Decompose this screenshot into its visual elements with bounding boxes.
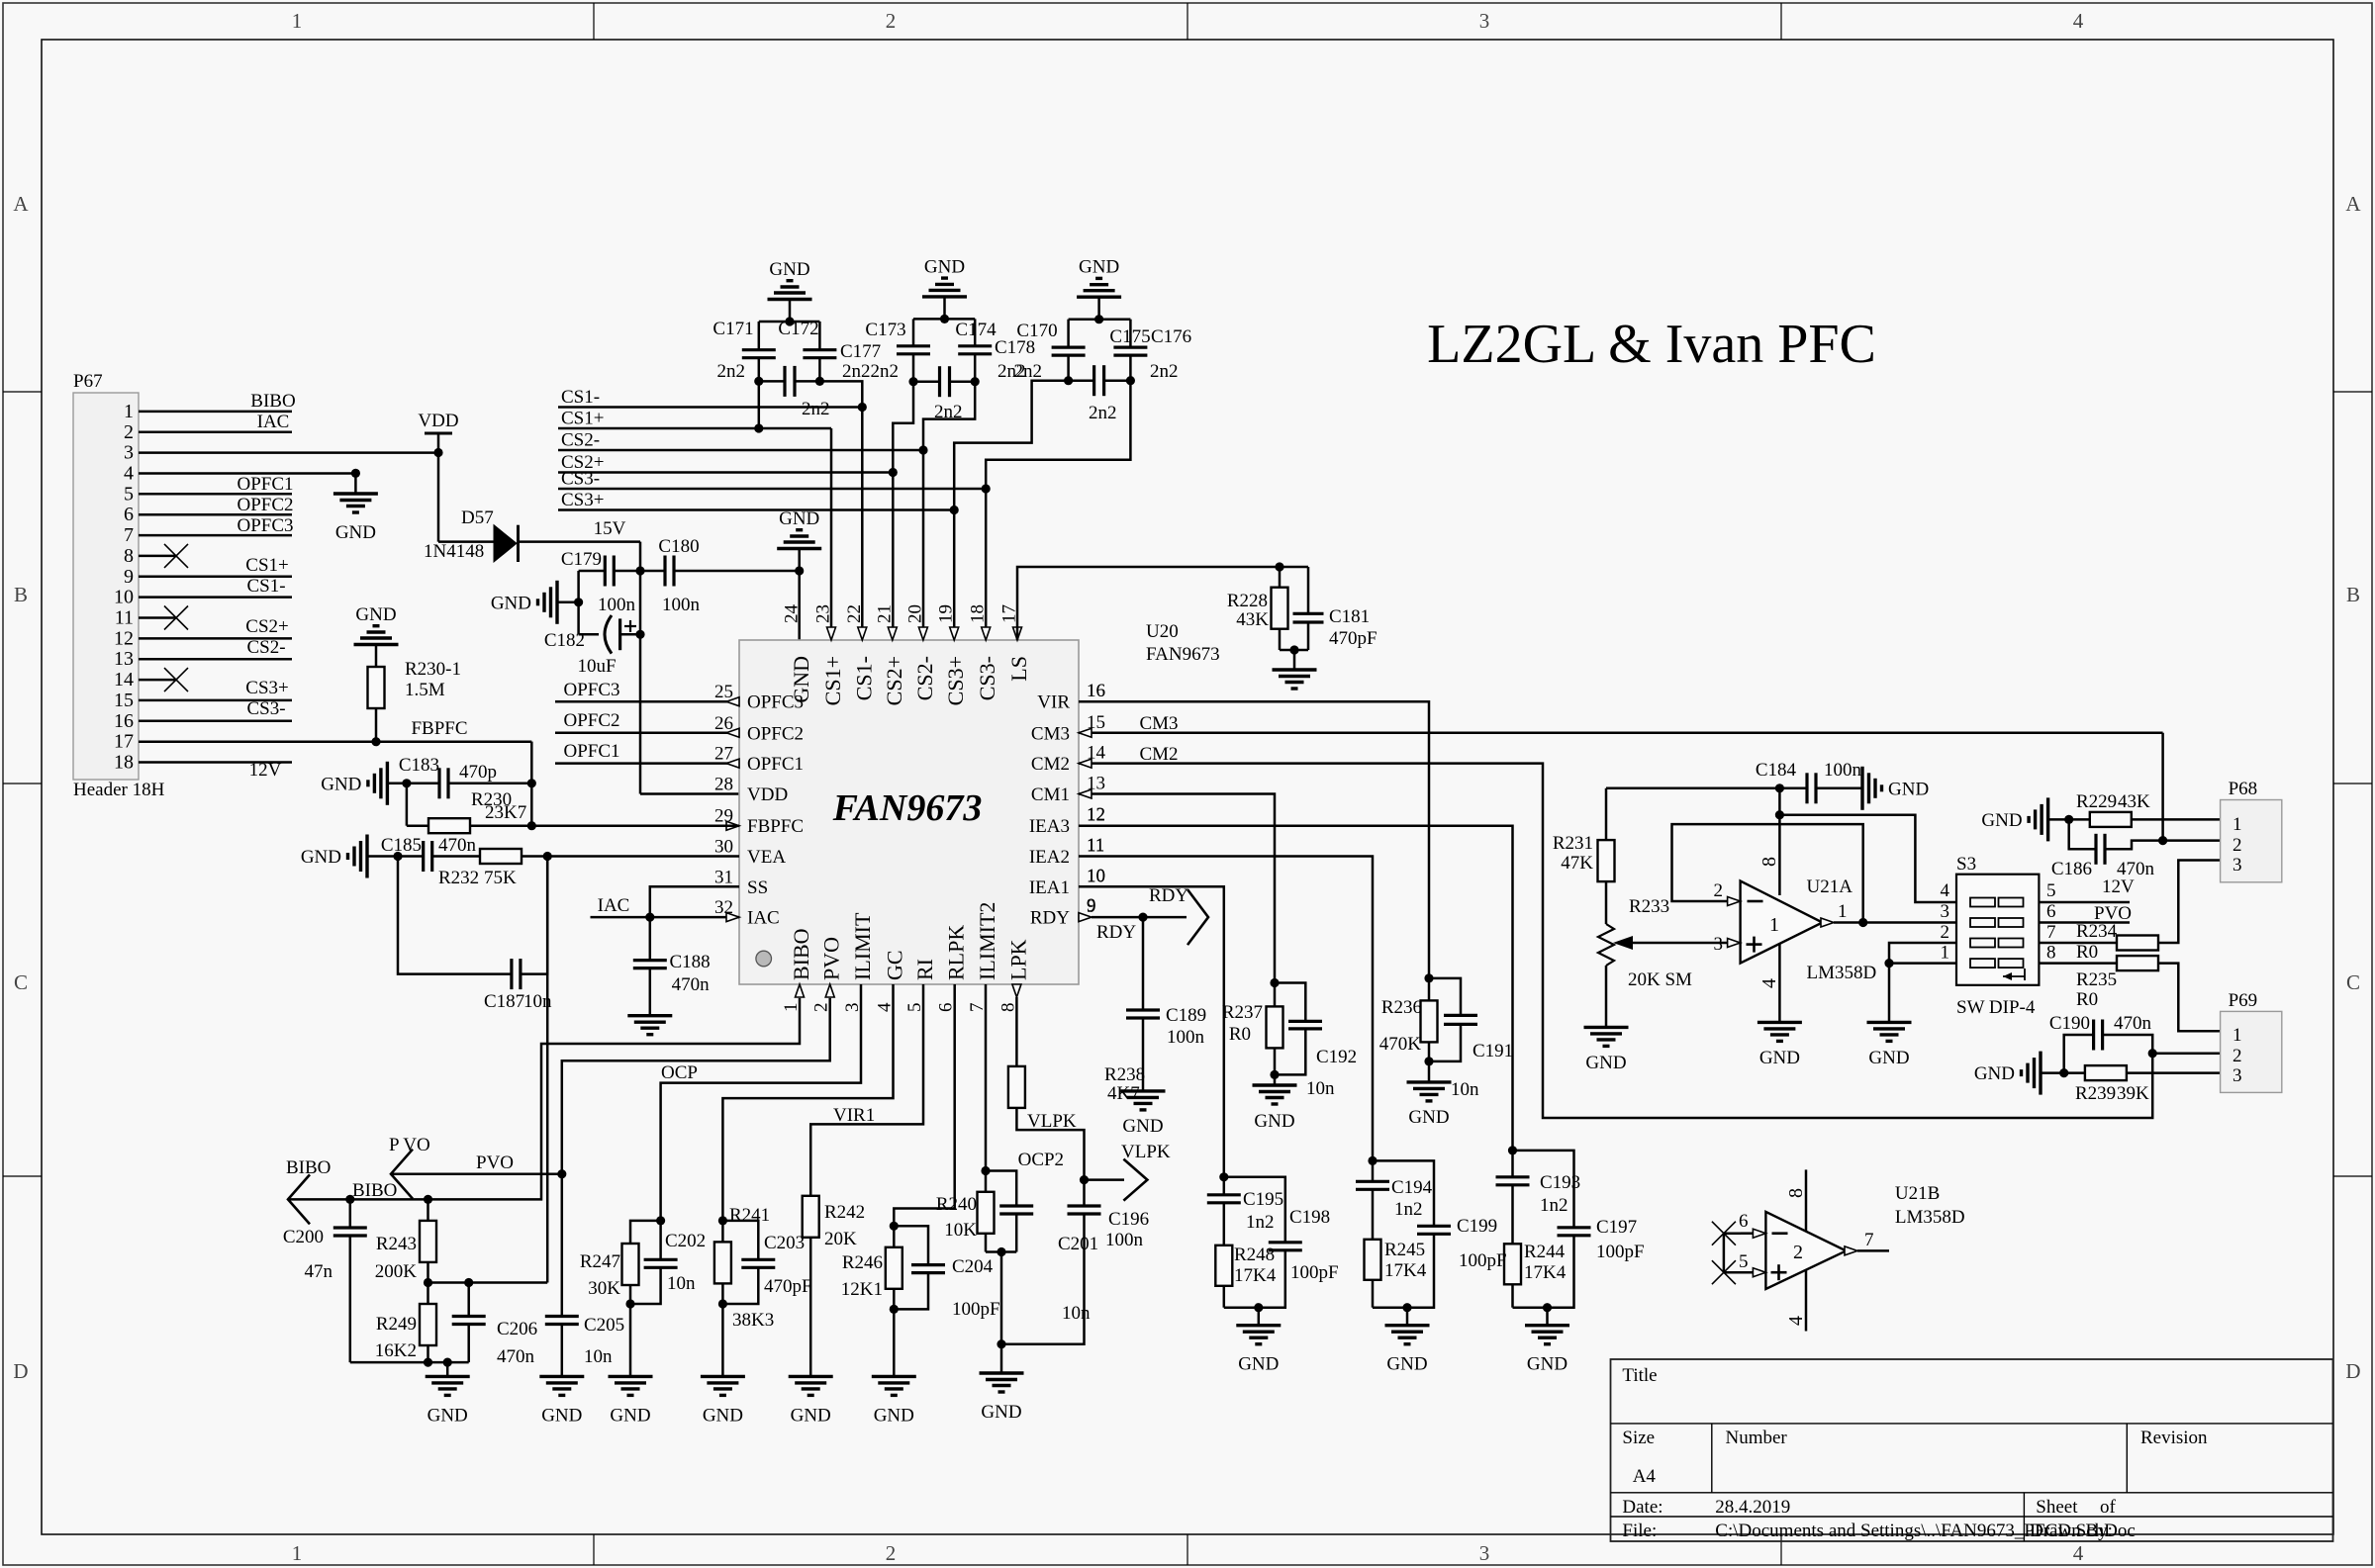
svg-text:100n: 100n	[662, 595, 701, 615]
svg-text:C198: C198	[1289, 1207, 1330, 1228]
connector P68	[2221, 800, 2282, 882]
svg-text:GND: GND	[1868, 1048, 1909, 1068]
capacitor C181 470pF	[1307, 567, 1310, 613]
wire CS2+ stub	[558, 471, 893, 474]
svg-text:12V: 12V	[2102, 876, 2135, 897]
svg-text:100pF: 100pF	[1596, 1242, 1645, 1262]
ground under divider	[446, 1362, 449, 1376]
pin 2 PVO arrow	[825, 984, 834, 997]
svg-text:CS3+: CS3+	[943, 656, 968, 705]
capacitor C201 10n	[999, 1204, 1033, 1207]
wire P67 pin 14 no-connect	[139, 679, 176, 682]
svg-text:R240: R240	[936, 1194, 977, 1215]
svg-text:2n2: 2n2	[717, 361, 746, 382]
junction PVO arrow	[557, 1169, 566, 1178]
svg-text:CS2-: CS2-	[912, 656, 937, 700]
svg-text:C186: C186	[2051, 859, 2092, 879]
resistor R231 47K	[1605, 788, 1608, 840]
svg-text:CS3+: CS3+	[245, 678, 288, 698]
svg-text:RLPK: RLPK	[944, 925, 969, 980]
svg-text:GND: GND	[1254, 1111, 1294, 1132]
junction group bottom	[1402, 1303, 1411, 1312]
svg-text:R249: R249	[376, 1314, 417, 1335]
svg-text:4: 4	[124, 463, 134, 485]
svg-text:43K: 43K	[2118, 791, 2150, 812]
svg-text:Title: Title	[1622, 1365, 1657, 1386]
svg-text:13: 13	[114, 648, 134, 670]
svg-text:31: 31	[714, 867, 733, 887]
svg-text:470n: 470n	[2117, 859, 2155, 879]
wire GC net pin 4	[722, 984, 893, 1221]
svg-text:C174: C174	[955, 320, 997, 340]
ground above cap group	[789, 300, 792, 323]
svg-text:IAC: IAC	[598, 895, 630, 916]
ground under R241	[721, 1304, 724, 1376]
svg-text:4: 4	[1941, 880, 1950, 901]
junction R246/C204	[890, 1222, 899, 1231]
svg-text:R0: R0	[1229, 1024, 1251, 1045]
svg-text:2: 2	[2232, 835, 2242, 856]
svg-text:C201: C201	[1058, 1234, 1098, 1254]
svg-text:CM3: CM3	[1139, 713, 1178, 734]
capacitor C206 470n	[467, 1283, 470, 1317]
wire CS3+ stub	[558, 508, 954, 511]
svg-text:R238: R238	[1104, 1064, 1145, 1085]
svg-text:12K1: 12K1	[841, 1279, 883, 1300]
ground under U21A	[1757, 1021, 1802, 1024]
svg-text:5: 5	[124, 483, 134, 505]
svg-text:C: C	[14, 970, 28, 994]
U21A output pin 1	[1821, 918, 1834, 927]
wire OCP2 to C201	[986, 1171, 1016, 1207]
svg-text:LPK: LPK	[1005, 939, 1030, 980]
svg-text:15V: 15V	[594, 518, 626, 539]
junction R241/C203	[718, 1216, 727, 1225]
svg-text:GND: GND	[1527, 1354, 1567, 1375]
svg-text:10: 10	[1087, 866, 1105, 886]
junction R237 bottom	[1270, 1070, 1279, 1079]
resistor R239 39K	[2085, 1065, 2127, 1080]
svg-text:18: 18	[114, 752, 134, 774]
svg-text:2n2: 2n2	[1014, 361, 1043, 382]
svg-text:1: 1	[1941, 943, 1950, 964]
svg-text:1n2: 1n2	[1540, 1195, 1568, 1216]
ground above IC pin 24	[798, 549, 801, 572]
svg-text:16K2: 16K2	[375, 1340, 417, 1361]
svg-text:GND: GND	[1079, 257, 1119, 278]
capacitor C183 470p	[437, 768, 440, 798]
bottom rail R249/C200/C206	[350, 1361, 469, 1364]
connector P67 Header 18H	[73, 393, 139, 780]
capacitor C193 1n2	[1511, 1151, 1514, 1177]
svg-text:P VO: P VO	[389, 1135, 430, 1155]
U21A feedback loop	[1672, 824, 1863, 922]
resistor R235 R0	[2039, 962, 2117, 965]
svg-text:GND: GND	[321, 774, 361, 794]
svg-text:C177: C177	[840, 341, 881, 362]
wire IEA1 pin10 to C195 group	[1079, 886, 1224, 1177]
capacitor C198 100pF	[1224, 1177, 1285, 1243]
svg-text:100n: 100n	[1824, 760, 1862, 781]
svg-text:2: 2	[886, 9, 897, 33]
svg-text:CS1-: CS1-	[561, 387, 600, 408]
svg-text:2: 2	[1941, 922, 1950, 943]
ground above cap group	[1097, 297, 1100, 320]
wire VLPK net	[1016, 1108, 1084, 1180]
wire VIR pin16 to R236	[1079, 701, 1429, 978]
junction CM2/P69 pin2	[2148, 1049, 2157, 1058]
svg-text:10n: 10n	[667, 1273, 696, 1294]
svg-text:Size: Size	[1622, 1428, 1655, 1448]
svg-text:C181: C181	[1329, 606, 1370, 627]
svg-text:C179: C179	[561, 549, 602, 570]
svg-text:R235: R235	[2076, 969, 2117, 990]
svg-text:47K: 47K	[1561, 853, 1593, 874]
capacitor C184 100n	[1779, 787, 1807, 790]
svg-text:A4: A4	[1633, 1466, 1657, 1487]
svg-text:Sheet: Sheet	[2036, 1497, 2078, 1518]
wire C177 rail to CS1- / pin 22	[819, 381, 862, 407]
wire S3 pin 6 PVO stub	[2039, 921, 2130, 924]
svg-text:CS3+: CS3+	[561, 490, 604, 510]
svg-text:Date:: Date:	[1622, 1497, 1662, 1518]
wire PVO net	[562, 998, 830, 1317]
capacitor C179 100n	[604, 556, 607, 587]
svg-text:OPFC1: OPFC1	[747, 754, 804, 775]
wire OCP net pin 3	[661, 984, 861, 1221]
svg-text:R232: R232	[438, 868, 479, 888]
junction R243 top	[424, 1195, 432, 1204]
svg-text:38K3: 38K3	[732, 1310, 774, 1331]
svg-text:17K4: 17K4	[1524, 1262, 1567, 1283]
svg-text:6: 6	[1739, 1211, 1749, 1232]
ground stem under R240	[1000, 1252, 1003, 1374]
wire divider mid to VEA node	[428, 1281, 548, 1284]
junction R230-1 bottom	[371, 737, 380, 746]
svg-text:GND: GND	[1974, 1063, 2015, 1084]
svg-text:R0: R0	[2076, 942, 2098, 963]
svg-text:D: D	[2345, 1359, 2360, 1383]
ground under group	[1406, 1308, 1409, 1326]
svg-text:VDD: VDD	[747, 784, 788, 805]
svg-text:CS1-: CS1-	[246, 576, 285, 597]
ground under group	[1546, 1308, 1549, 1326]
svg-text:23K7: 23K7	[485, 802, 526, 823]
connector P69	[2221, 1011, 2282, 1092]
capacitor C187 10n	[398, 857, 512, 974]
svg-text:GND: GND	[791, 1405, 831, 1426]
svg-text:IEA3: IEA3	[1029, 816, 1070, 837]
capacitor C188 470n	[633, 959, 667, 962]
svg-text:C189: C189	[1166, 1005, 1206, 1026]
wire OPFC2 stub to pin 26	[555, 732, 739, 735]
svg-text:GND: GND	[1585, 1053, 1626, 1073]
svg-text:GND: GND	[335, 522, 376, 543]
svg-text:B: B	[2346, 583, 2360, 606]
svg-text:7: 7	[1864, 1230, 1874, 1250]
wire P67 pin 3 to VDD	[139, 451, 438, 454]
harness arrow P VO	[391, 1150, 413, 1199]
svg-text:IAC: IAC	[257, 412, 290, 432]
junction R237 top	[1270, 978, 1279, 987]
svg-text:RDY: RDY	[1030, 908, 1070, 929]
svg-text:C196: C196	[1108, 1209, 1149, 1230]
svg-text:2: 2	[1714, 880, 1724, 901]
svg-text:CM2: CM2	[1031, 754, 1070, 775]
svg-text:LM358D: LM358D	[1895, 1207, 1965, 1228]
wire P67 pin 13	[139, 658, 292, 661]
pin 29 FBPFC input arrow	[726, 821, 739, 830]
wire P67 pin 7	[139, 534, 292, 537]
svg-text:7: 7	[2046, 922, 2056, 943]
svg-text:20K SM: 20K SM	[1628, 969, 1692, 990]
svg-text:BIBO: BIBO	[789, 928, 813, 980]
svg-text:C171: C171	[712, 319, 753, 339]
resistor R238 4K7	[1015, 997, 1018, 1066]
svg-text:8: 8	[1785, 1188, 1807, 1198]
svg-text:VIR: VIR	[1037, 692, 1070, 713]
resistor R237 R0	[1274, 983, 1277, 1007]
capacitor C196 100n	[1083, 1180, 1086, 1206]
resistor R232 75K	[480, 849, 522, 864]
svg-text:GND: GND	[1408, 1107, 1449, 1128]
svg-text:VIR1: VIR1	[833, 1105, 875, 1126]
capacitor C202 10n	[659, 1221, 662, 1259]
wire BIBO net	[288, 998, 800, 1200]
svg-text:CS1+: CS1+	[820, 656, 845, 705]
svg-text:CS2-: CS2-	[246, 637, 285, 658]
wire C170 lead to CS3+ / pin 19	[954, 381, 1068, 510]
svg-text:R0: R0	[2076, 989, 2098, 1010]
wire VIR1 net pin 5	[810, 984, 923, 1196]
svg-text:C204: C204	[952, 1256, 994, 1277]
svg-text:12: 12	[1087, 804, 1105, 825]
resistor R234 R0	[2039, 942, 2117, 945]
svg-text:10uF: 10uF	[577, 656, 616, 677]
svg-text:8: 8	[1758, 857, 1780, 867]
svg-text:17K4: 17K4	[1384, 1260, 1427, 1281]
wire R231 top to C184 node	[1606, 787, 1779, 790]
svg-text:11: 11	[115, 607, 134, 629]
svg-text:of: of	[2100, 1497, 2117, 1518]
wire CS3- stub	[558, 488, 986, 491]
svg-text:2n2: 2n2	[802, 399, 830, 419]
wire P67 pin 4 to GND	[139, 472, 355, 475]
svg-text:Number: Number	[1726, 1428, 1788, 1448]
capacitor C194 1n2	[1372, 1160, 1375, 1181]
svg-text:GND: GND	[769, 259, 809, 280]
capacitor C189 100n	[1126, 1008, 1160, 1011]
wire P67 pin 12	[139, 637, 292, 640]
svg-text:GND: GND	[703, 1405, 743, 1426]
junction C184 node	[1775, 784, 1784, 792]
harness arrow BIBO	[288, 1174, 310, 1224]
wire RLPK net pin 6	[894, 984, 954, 1226]
svg-text:11: 11	[1087, 835, 1104, 856]
resistor R243 200K	[427, 1199, 429, 1221]
svg-text:28: 28	[714, 775, 733, 795]
svg-text:C175: C175	[1109, 326, 1150, 347]
svg-text:100pF: 100pF	[952, 1299, 1000, 1320]
resistor R247 30K	[630, 1221, 661, 1244]
svg-text:CS2-: CS2-	[561, 430, 600, 451]
ground under C189	[1142, 1018, 1145, 1091]
wire C173 lead to CS2+ / pin 21	[893, 382, 913, 473]
svg-text:470K: 470K	[1379, 1034, 1422, 1055]
junction C200	[345, 1195, 354, 1204]
wire SS pin 31	[650, 886, 739, 917]
svg-text:R233: R233	[1629, 896, 1669, 917]
svg-text:R231: R231	[1553, 833, 1593, 854]
capacitor C182 10uF electrolytic	[579, 633, 599, 636]
wire S3 pin 5 12V stub	[2039, 901, 2130, 904]
svg-text:12V: 12V	[249, 760, 282, 781]
resistor R246 12K1	[893, 1226, 896, 1247]
resistor R241 38K3	[721, 1221, 724, 1243]
svg-text:470p: 470p	[459, 762, 497, 783]
wire LS pin 17 to R228	[1017, 567, 1280, 640]
svg-text:C191: C191	[1472, 1041, 1513, 1061]
svg-text:GND: GND	[924, 256, 965, 277]
svg-text:1: 1	[2232, 1025, 2242, 1046]
svg-text:1: 1	[124, 401, 134, 422]
svg-text:10n: 10n	[1062, 1303, 1091, 1324]
junction group bottom	[1254, 1303, 1263, 1312]
svg-text:9: 9	[124, 566, 134, 588]
svg-text:VLPK: VLPK	[1121, 1142, 1171, 1162]
svg-text:100n: 100n	[1105, 1230, 1144, 1250]
svg-text:R230-1: R230-1	[405, 659, 461, 680]
svg-text:R247: R247	[580, 1251, 620, 1272]
wire OPFC1 stub to pin 27	[555, 762, 739, 765]
wire P67 pin 16	[139, 720, 292, 723]
svg-text:VLPK: VLPK	[1027, 1111, 1077, 1132]
svg-text:28.4.2019: 28.4.2019	[1715, 1497, 1790, 1518]
svg-text:5: 5	[1739, 1251, 1749, 1272]
svg-text:ILIMIT2: ILIMIT2	[975, 902, 999, 980]
wire CS2- stub	[558, 449, 923, 452]
svg-text:IEA2: IEA2	[1029, 847, 1070, 868]
pin 8 LPK output arrow	[1012, 984, 1021, 997]
svg-text:CS2+: CS2+	[245, 616, 288, 637]
svg-text:C199: C199	[1457, 1216, 1497, 1237]
svg-text:C172: C172	[778, 319, 818, 339]
svg-text:C176: C176	[1151, 326, 1191, 347]
wire ILIMIT2 pin 7 to R240	[985, 984, 988, 1192]
svg-text:470n: 470n	[497, 1346, 535, 1367]
svg-text:10: 10	[114, 587, 134, 608]
svg-text:OCP: OCP	[661, 1062, 698, 1083]
potentiometer R233 20K SM	[1605, 881, 1608, 924]
diode D57 1N4148	[438, 540, 494, 543]
svg-text:GND: GND	[1238, 1354, 1279, 1375]
ground under R236	[1428, 1061, 1431, 1082]
svg-text:GND: GND	[491, 593, 531, 613]
svg-text:470n: 470n	[438, 835, 477, 856]
svg-text:SW DIP-4: SW DIP-4	[1956, 997, 2036, 1018]
svg-text:BIBO: BIBO	[352, 1180, 397, 1201]
capacitor C205 10n	[545, 1315, 579, 1318]
op-amp U21A LM358D	[1741, 881, 1823, 964]
U21A input pin 2	[1728, 897, 1741, 906]
svg-text:1: 1	[1838, 901, 1848, 922]
svg-text:8: 8	[124, 545, 134, 567]
svg-text:D57: D57	[461, 507, 494, 528]
capacitor C197 100pF	[1513, 1151, 1574, 1228]
svg-text:GND: GND	[981, 1402, 1021, 1423]
svg-text:3: 3	[1479, 1541, 1490, 1565]
U21A power pin 8	[1778, 815, 1781, 895]
wire CM2 pin14 to P69	[1079, 764, 2152, 1118]
wire IEA2 pin11 to C194 group	[1079, 857, 1373, 1161]
svg-text:GC: GC	[883, 950, 907, 980]
resistor R230 23K7	[406, 784, 409, 826]
svg-text:P69: P69	[2229, 990, 2258, 1011]
junction C182/GND	[574, 598, 583, 606]
svg-text:24: 24	[782, 604, 803, 624]
svg-text:39K: 39K	[2117, 1083, 2149, 1104]
svg-text:RDY: RDY	[1096, 922, 1136, 943]
wire IAC stub pin 32	[591, 916, 740, 919]
svg-text:CM3: CM3	[1031, 723, 1070, 744]
resistor R249 16K2	[427, 1283, 429, 1305]
resistor R242 20K	[803, 1196, 819, 1238]
junction LS/R228	[1275, 562, 1283, 571]
wire P67 pin 11 no-connect	[139, 616, 176, 619]
U21B power pin 4	[1805, 1270, 1808, 1332]
svg-text:GND: GND	[1759, 1048, 1800, 1068]
pin 9 RDY output arrow	[1079, 913, 1092, 922]
svg-text:C185: C185	[381, 835, 422, 856]
junction R247/C202	[656, 1216, 665, 1225]
resistor R248 17K4	[1223, 1203, 1226, 1245]
svg-text:A: A	[13, 192, 29, 216]
junction VLPK	[1080, 1175, 1089, 1184]
svg-text:1: 1	[292, 9, 303, 33]
U21B output pin 7	[1845, 1246, 1857, 1255]
junction node VDD	[433, 448, 442, 457]
svg-text:OPFC1: OPFC1	[237, 474, 293, 495]
svg-text:15: 15	[114, 690, 134, 711]
svg-text:12: 12	[114, 627, 134, 649]
resistor R230-1 1.5M	[368, 667, 385, 708]
harness arrow RDY	[1187, 889, 1208, 945]
ground above R230-1	[375, 645, 378, 668]
ground left of C179	[555, 581, 558, 624]
svg-text:B: B	[14, 583, 28, 606]
capacitor C190 470n	[2064, 1035, 2094, 1073]
svg-text:3: 3	[124, 442, 134, 464]
svg-text:2n2: 2n2	[842, 361, 871, 382]
svg-text:FBPFC: FBPFC	[747, 816, 804, 837]
resistor R228 43K	[1279, 567, 1282, 588]
U21A power pin 4	[1778, 944, 1781, 1023]
svg-text:CS3-: CS3-	[561, 469, 600, 490]
svg-text:CS3-: CS3-	[975, 656, 999, 700]
op-amp U21B LM358D	[1765, 1212, 1846, 1289]
wire CM3 pin15 to P68	[1079, 732, 2163, 735]
svg-text:3: 3	[1479, 9, 1490, 33]
svg-text:30: 30	[714, 837, 733, 858]
top pin wires	[827, 627, 836, 640]
ground above cap group	[943, 297, 946, 320]
wire 15V to C179/C180 node	[639, 542, 642, 571]
svg-text:CS1-: CS1-	[851, 656, 876, 700]
S3 slide indicator	[2003, 968, 2025, 980]
switch S3 SW DIP-4	[1956, 875, 2039, 985]
svg-text:LZ2GL & Ivan PFC: LZ2GL & Ivan PFC	[1427, 314, 1876, 375]
wire VDD down to D57	[437, 453, 440, 542]
